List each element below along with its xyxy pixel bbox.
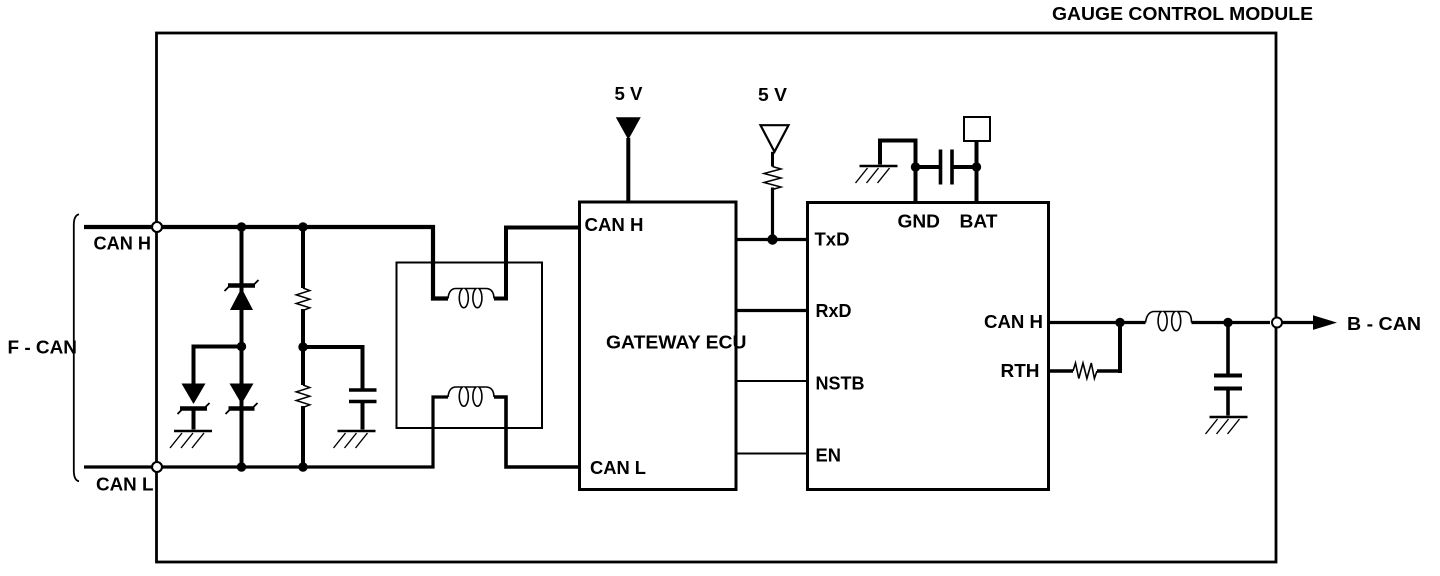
svg-text:GATEWAY ECU: GATEWAY ECU (606, 332, 747, 353)
wire C1 to ground (361, 402, 365, 430)
F-CAN bracket (74, 214, 79, 481)
svg-text:RTH: RTH (1001, 360, 1040, 381)
svg-text:EN: EN (816, 445, 842, 466)
svg-text:CAN H: CAN H (984, 311, 1043, 332)
transceiver block U1 (808, 203, 1049, 490)
node terminal CAN L (left, open circle) (152, 462, 162, 472)
wire GND to capacitor (916, 165, 941, 169)
resistor R2 (lower) (296, 385, 310, 407)
ground (below C1) (334, 431, 376, 448)
wire NSTB (736, 380, 808, 382)
node terminal B-CAN (right, open circle) (1272, 318, 1282, 328)
wire GND pin (880, 141, 916, 203)
diode D2 triangle (pointing down) (182, 384, 206, 405)
svg-text:CAN L: CAN L (96, 474, 154, 495)
diode D1 zener cathode bar (228, 283, 255, 287)
common-mode choke box (397, 263, 543, 429)
svg-text:GAUGE CONTROL MODULE: GAUGE CONTROL MODULE (1052, 3, 1313, 24)
node junction divider mid (298, 342, 307, 351)
wire TVS left branch (194, 347, 242, 384)
svg-text:B - CAN: B - CAN (1347, 313, 1421, 334)
node junction GND (911, 162, 920, 171)
wire divider mid to capacitor (303, 347, 363, 390)
node junction capacitor tap (1223, 318, 1232, 327)
svg-text:5 V: 5 V (758, 84, 788, 105)
wire D2 to ground (192, 409, 196, 430)
diode D1 triangle (pointing up) (230, 288, 253, 310)
diode D2 zener cathode bar (180, 406, 207, 410)
op block GATEWAY ECU (580, 202, 737, 490)
wire B-CAN arrow (1283, 321, 1315, 324)
wire RTH (1049, 369, 1074, 372)
diode D3 triangle (pointing down) (230, 384, 254, 405)
wire 5V to resistor (771, 152, 774, 167)
svg-text:CAN H: CAN H (585, 214, 644, 235)
ground (GND pin) (856, 166, 898, 183)
wire EN (736, 453, 808, 455)
inductor L1a (choke top winding) (448, 289, 494, 308)
node junction TxD (767, 234, 777, 244)
svg-text:CAN L: CAN L (590, 457, 646, 478)
wire RxD (736, 309, 808, 312)
wire CAN H output (1049, 321, 1146, 324)
svg-text:CAN H: CAN H (94, 233, 152, 254)
node junction CAN L rail dots (237, 462, 246, 471)
inductor L2 (1146, 312, 1192, 331)
wire TVS branch vertical (240, 227, 244, 467)
wire tap to capacitor C3 (1226, 323, 1230, 376)
node junction BAT (972, 162, 981, 171)
svg-text:NSTB: NSTB (816, 373, 865, 394)
capacitor C3 (1214, 376, 1242, 389)
resistor R3 (pull-up) (764, 167, 781, 190)
wire CAN H choke output (494, 228, 580, 299)
wire CAN L rail (84, 397, 448, 467)
resistor R1 (upper) (296, 288, 310, 310)
inductor L1b (choke bottom winding) (448, 387, 494, 406)
node junction TVS mid (237, 342, 246, 351)
svg-text:5 V: 5 V (615, 83, 644, 104)
ground (below C3) (1206, 417, 1248, 434)
wire resistor to TxD (771, 188, 774, 240)
svg-text:BAT: BAT (960, 211, 999, 232)
wire RTH to CAN H (1097, 369, 1120, 372)
node junction CAN H / RTH (1115, 318, 1124, 327)
wire resistor divider vertical (301, 227, 305, 467)
svg-text:GND: GND (898, 211, 941, 232)
wire L2 to border (1192, 321, 1271, 324)
wire TxD (736, 238, 808, 241)
wire CAN L choke output (494, 397, 580, 467)
wire CAN H rail (84, 227, 448, 299)
module border GAUGE CONTROL MODULE (157, 33, 1277, 562)
node terminal CAN H (left, open circle) (152, 222, 162, 232)
capacitor C2 (941, 150, 953, 185)
capacitor C1 (349, 390, 377, 402)
ground (below D2) (170, 431, 212, 448)
wire capacitor to BAT (952, 165, 977, 169)
node junction CAN H rail dots (237, 222, 246, 231)
svg-text:TxD: TxD (815, 229, 850, 250)
svg-text:RxD: RxD (816, 300, 852, 321)
battery terminal square (964, 117, 990, 141)
wire BAT pin (975, 141, 979, 203)
wire C3 to ground (1226, 389, 1230, 416)
diode D3 zener cathode bar (229, 406, 255, 410)
resistor R4 (RTH) (1073, 363, 1097, 379)
svg-text:F - CAN: F - CAN (8, 337, 78, 358)
